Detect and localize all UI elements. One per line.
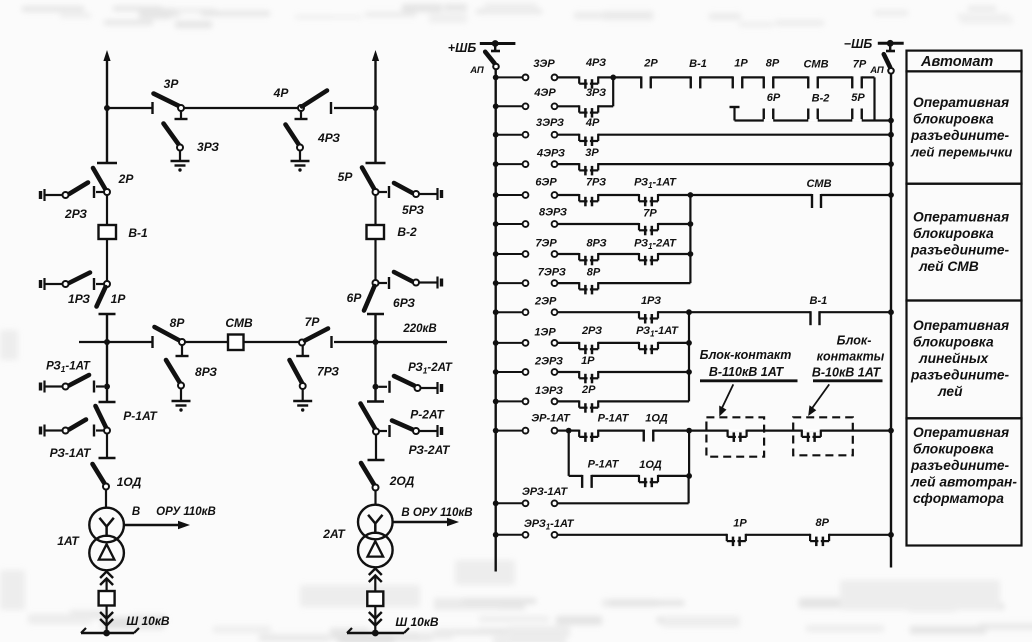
svg-text:В-1: В-1 (810, 295, 828, 307)
svg-text:5Р: 5Р (851, 92, 865, 104)
svg-text:4Р: 4Р (273, 86, 290, 100)
svg-text:8Р: 8Р (587, 267, 601, 279)
svg-text:В-2: В-2 (397, 225, 417, 239)
svg-text:ЭРЗ-1АТ: ЭРЗ-1АТ (522, 486, 569, 498)
svg-text:блокировка: блокировка (913, 112, 994, 127)
svg-text:2ОД: 2ОД (389, 474, 415, 488)
svg-text:7Р: 7Р (643, 208, 657, 220)
svg-text:4ЭР: 4ЭР (533, 87, 556, 99)
svg-text:РЗ1-2АТ: РЗ1-2АТ (408, 362, 453, 376)
svg-text:6РЗ: 6РЗ (393, 296, 415, 310)
svg-text:ОРУ 110кВ: ОРУ 110кВ (156, 506, 216, 518)
svg-text:2АТ: 2АТ (322, 527, 346, 541)
svg-text:8ЭРЗ: 8ЭРЗ (539, 207, 567, 219)
svg-text:В-1: В-1 (689, 58, 707, 70)
svg-text:РЗ1-1АТ: РЗ1-1АТ (46, 361, 91, 375)
svg-text:6Р: 6Р (347, 291, 363, 305)
svg-text:3Р: 3Р (585, 147, 599, 159)
svg-text:сформатора: сформатора (913, 491, 1004, 506)
svg-text:5РЗ: 5РЗ (402, 203, 424, 217)
svg-text:АП: АП (469, 65, 484, 76)
svg-text:7Р: 7Р (853, 59, 867, 71)
svg-text:Р-1АТ: Р-1АТ (588, 458, 620, 470)
svg-text:В-110кВ 1АТ: В-110кВ 1АТ (709, 365, 785, 379)
svg-text:8РЗ: 8РЗ (586, 238, 606, 250)
svg-text:1РЗ: 1РЗ (641, 295, 661, 307)
svg-text:Оперативная: Оперативная (913, 425, 1009, 440)
svg-text:разъедините-: разъедините- (910, 458, 1010, 473)
svg-text:−ШБ: −ШБ (844, 37, 873, 51)
svg-text:разъедините-: разъедините- (910, 243, 1010, 258)
svg-text:1ОД: 1ОД (645, 413, 668, 425)
svg-text:1ЭРЗ: 1ЭРЗ (535, 385, 563, 397)
svg-text:Оперативная: Оперативная (913, 95, 1009, 110)
svg-text:РЗ-1АТ: РЗ-1АТ (50, 446, 92, 460)
svg-text:3Р: 3Р (164, 77, 180, 91)
svg-text:РЗ1-2АТ: РЗ1-2АТ (634, 238, 677, 252)
svg-text:ЭРЗ1-1АТ: ЭРЗ1-1АТ (524, 518, 575, 532)
svg-text:В-10кВ 1АТ: В-10кВ 1АТ (812, 366, 882, 380)
svg-text:1Р: 1Р (734, 58, 748, 70)
svg-text:В: В (132, 506, 140, 518)
svg-text:РЗ1-1АТ: РЗ1-1АТ (634, 177, 677, 191)
svg-text:8Р: 8Р (815, 517, 829, 529)
svg-text:4РЗ: 4РЗ (585, 57, 606, 69)
svg-text:7РЗ: 7РЗ (586, 177, 606, 189)
svg-text:ЭР-1АТ: ЭР-1АТ (531, 413, 571, 425)
svg-text:1АТ: 1АТ (57, 534, 80, 548)
svg-text:2Р: 2Р (118, 172, 135, 186)
svg-text:разъедините-: разъедините- (910, 128, 1010, 143)
svg-text:контакты: контакты (817, 350, 885, 364)
svg-text:линейных: линейных (918, 351, 990, 366)
svg-text:7ЭР: 7ЭР (535, 238, 557, 250)
svg-text:1Р: 1Р (733, 517, 747, 529)
svg-text:лей перемычки: лей перемычки (910, 145, 1012, 160)
svg-text:1Р: 1Р (111, 292, 127, 306)
svg-text:2РЗ: 2РЗ (581, 325, 602, 337)
svg-text:220кВ: 220кВ (402, 323, 436, 335)
svg-text:2ЭРЗ: 2ЭРЗ (534, 356, 563, 368)
svg-text:1РЗ: 1РЗ (68, 292, 90, 306)
svg-text:1Р: 1Р (581, 355, 595, 367)
svg-text:лей СМВ: лей СМВ (918, 259, 979, 274)
svg-text:8РЗ: 8РЗ (195, 365, 217, 379)
svg-text:4Р: 4Р (585, 117, 600, 129)
svg-text:Р-2АТ: Р-2АТ (410, 408, 445, 422)
svg-text:Блок-: Блок- (837, 334, 872, 348)
svg-text:АП: АП (869, 65, 884, 76)
svg-text:Блок-контакт: Блок-контакт (700, 348, 792, 362)
svg-text:В ОРУ 110кВ: В ОРУ 110кВ (401, 507, 472, 519)
svg-text:1ОД: 1ОД (639, 459, 662, 471)
svg-text:2ЭР: 2ЭР (534, 296, 557, 308)
svg-text:В-2: В-2 (812, 93, 830, 105)
svg-text:Оперативная: Оперативная (913, 210, 1009, 225)
svg-text:РЗ1-1АТ: РЗ1-1АТ (636, 325, 679, 339)
svg-text:7РЗ: 7РЗ (317, 365, 339, 379)
svg-text:Оперативная: Оперативная (913, 318, 1009, 333)
svg-text:Ш 10кВ: Ш 10кВ (126, 614, 170, 628)
svg-text:3ЭР: 3ЭР (533, 58, 555, 70)
svg-text:3РЗ: 3РЗ (586, 87, 606, 99)
svg-text:3РЗ: 3РЗ (197, 140, 219, 154)
svg-text:3ЭРЗ: 3ЭРЗ (536, 117, 564, 129)
svg-text:4РЗ: 4РЗ (317, 131, 340, 145)
svg-text:блокировка: блокировка (913, 226, 994, 241)
svg-text:2РЗ: 2РЗ (64, 207, 87, 221)
svg-text:7ЭРЗ: 7ЭРЗ (538, 267, 566, 279)
svg-text:Р-1АТ: Р-1АТ (123, 409, 158, 423)
svg-text:6ЭР: 6ЭР (535, 177, 557, 189)
svg-text:СМВ: СМВ (225, 316, 253, 330)
svg-text:1ЭР: 1ЭР (534, 326, 556, 338)
svg-text:СМВ: СМВ (806, 178, 831, 190)
svg-text:лей: лей (937, 384, 963, 399)
svg-text:СМВ: СМВ (803, 59, 828, 71)
svg-text:разъедините-: разъедините- (910, 368, 1010, 383)
svg-text:6Р: 6Р (767, 92, 781, 104)
svg-text:8Р: 8Р (170, 316, 186, 330)
svg-text:2Р: 2Р (643, 58, 658, 70)
svg-text:2Р: 2Р (581, 384, 596, 396)
svg-text:Автомат: Автомат (920, 54, 993, 70)
svg-text:РЗ-2АТ: РЗ-2АТ (409, 443, 451, 457)
svg-text:7Р: 7Р (305, 315, 321, 329)
svg-text:блокировка: блокировка (913, 442, 994, 457)
svg-text:В-1: В-1 (128, 226, 148, 240)
svg-text:Ш 10кВ: Ш 10кВ (395, 615, 439, 629)
svg-text:лей автотран-: лей автотран- (910, 475, 1017, 490)
svg-text:блокировка: блокировка (913, 335, 994, 350)
svg-text:1ОД: 1ОД (117, 475, 142, 489)
svg-text:4ЭРЗ: 4ЭРЗ (536, 148, 565, 160)
svg-text:+ШБ: +ШБ (448, 41, 477, 55)
svg-text:5Р: 5Р (338, 170, 354, 184)
svg-text:8Р: 8Р (766, 58, 780, 70)
svg-text:Р-1АТ: Р-1АТ (598, 413, 630, 425)
